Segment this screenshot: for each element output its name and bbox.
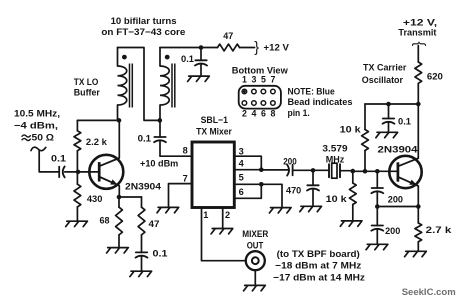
svg-text:Oscillator: Oscillator — [362, 75, 404, 85]
svg-text:0.1: 0.1 — [51, 154, 66, 164]
wire winding2 top rail to +12V — [160, 47, 218, 49]
node base Q1 — [76, 170, 81, 175]
node cap chain mid — [375, 204, 380, 209]
svg-text:−18 dBm at 7 MHz: −18 dBm at 7 MHz — [275, 261, 361, 271]
node bypass junction — [199, 45, 204, 50]
svg-text:2N3904: 2N3904 — [125, 182, 162, 192]
svg-text:10.5 MHz,: 10.5 MHz, — [14, 109, 60, 119]
node shunt cap junction — [311, 168, 316, 173]
svg-text:2N3904: 2N3904 — [378, 145, 419, 155]
svg-text:47: 47 — [149, 219, 160, 229]
svg-text:0.1: 0.1 — [138, 133, 152, 143]
transistor Q2 2N3904 — [397, 162, 400, 181]
capacitor C2 0.1 emitter bypass — [136, 251, 147, 253]
ground below 68 — [107, 248, 129, 253]
pin 4 wire — [234, 169, 261, 171]
pin 3 wire — [234, 156, 261, 170]
svg-text:620: 620 — [427, 71, 443, 81]
resistor R4 47 emitter — [141, 197, 143, 252]
pin 2 wire to ground — [222, 208, 224, 229]
wire input vertical and to coupling cap — [39, 150, 59, 172]
wire cap to ground — [141, 257, 143, 271]
node upper 10k junction — [363, 169, 368, 174]
connector J1 mixer out jack — [246, 251, 265, 270]
resistor R3 68 — [118, 197, 120, 247]
capacitor C8 200 feedback lower — [376, 207, 378, 226]
svg-text:6: 6 — [239, 187, 244, 197]
ground pin 7 — [157, 207, 179, 212]
ground below 470 — [269, 208, 291, 213]
resistor R10 2.7 k — [417, 207, 419, 252]
node 620 collector junction — [416, 102, 421, 107]
svg-text:7: 7 — [183, 174, 188, 184]
svg-text:MHz: MHz — [326, 154, 345, 164]
node emitter Q1 — [117, 195, 122, 200]
wire jack to ground — [254, 270, 256, 285]
svg-text:10 bifilar turns: 10 bifilar turns — [111, 16, 177, 26]
svg-text:on FT−37−43 core: on FT−37−43 core — [101, 27, 185, 37]
svg-text:3: 3 — [239, 147, 244, 157]
svg-text:TX LO: TX LO — [74, 77, 99, 87]
svg-text:470: 470 — [286, 185, 301, 195]
svg-text:5: 5 — [239, 173, 244, 183]
resistor R1 2.2 k — [76, 120, 78, 171]
capacitor C6 0.1 osc bypass — [388, 104, 390, 119]
ground below jack — [244, 285, 266, 290]
svg-text:+12 V: +12 V — [264, 43, 290, 53]
svg-text:5: 5 — [261, 74, 266, 84]
pin 6 wire — [234, 184, 261, 198]
svg-text:0.1: 0.1 — [398, 116, 411, 126]
ground below 2.7k — [405, 251, 427, 256]
svg-text:0.1: 0.1 — [181, 54, 194, 64]
svg-text:2: 2 — [225, 210, 230, 220]
crystal Y1 3.579 MHz — [329, 164, 340, 177]
ground below 430 — [66, 221, 88, 226]
svg-text:+10 dBm: +10 dBm — [140, 159, 178, 169]
svg-text:4: 4 — [239, 159, 245, 169]
shunt capacitor to ground — [312, 170, 314, 185]
svg-text:Buffer: Buffer — [74, 87, 100, 97]
svg-text:7: 7 — [270, 74, 275, 84]
approx squiggle before 50 ohm — [22, 135, 30, 141]
svg-text:430: 430 — [87, 194, 103, 204]
ground below rail bypass — [188, 76, 210, 81]
svg-text:}: } — [254, 40, 259, 56]
svg-text:}: } — [411, 41, 427, 46]
svg-text:8: 8 — [270, 109, 275, 119]
node emitter Q2 — [416, 204, 421, 209]
svg-text:2: 2 — [242, 109, 247, 119]
svg-text:Bead indicates: Bead indicates — [288, 97, 353, 107]
ground pin 2 — [211, 229, 233, 234]
wire emitter to 47 branch — [119, 196, 142, 198]
ground below 0.1 emitter — [130, 271, 152, 276]
svg-text:SeekIC.com: SeekIC.com — [402, 287, 456, 298]
resistor R9 620 — [417, 46, 419, 105]
capacitor C7 200 feedback upper — [376, 171, 378, 188]
svg-text:200: 200 — [283, 156, 296, 166]
pin 7 wire to ground — [169, 184, 193, 208]
pin 1 bead marker — [243, 90, 246, 93]
U1 package outline bottom view — [239, 86, 281, 109]
wire resistor to +12V terminal — [240, 47, 255, 49]
ground below osc bypass — [376, 132, 398, 137]
svg-text:1: 1 — [203, 210, 208, 220]
wire cap to mixer pin 8 — [160, 141, 192, 156]
ground below lower 10k — [340, 221, 362, 226]
wire Q2 emitter — [417, 186, 419, 207]
node lower 10k junction — [351, 169, 356, 174]
svg-text:10 k: 10 k — [326, 194, 348, 204]
transformer T1 winding 2 — [159, 48, 161, 121]
svg-text:−4 dBm,: −4 dBm, — [14, 121, 58, 131]
package pins bottom view — [242, 89, 247, 94]
svg-text:47: 47 — [223, 31, 233, 41]
wire Q1 emitter — [118, 186, 120, 197]
phase dot winding 2 — [165, 55, 170, 60]
svg-text:MIXER: MIXER — [242, 229, 268, 239]
node pins 3-4 — [259, 167, 264, 172]
input source squiggle terminal — [31, 147, 46, 151]
svg-text:200: 200 — [388, 195, 403, 205]
node cap chain base junction — [375, 169, 380, 174]
wire emitter line — [377, 206, 418, 208]
supply rail oscillator — [365, 103, 418, 105]
svg-text:10 k: 10 k — [340, 124, 362, 134]
svg-text:4: 4 — [251, 109, 256, 119]
wire Q1 collector — [118, 120, 120, 158]
capacitor C1 0.1 input coupling — [58, 167, 60, 178]
svg-text:2.2 k: 2.2 k — [86, 137, 108, 147]
resistor R8 10 k upper — [364, 104, 366, 171]
svg-text:TX Mixer: TX Mixer — [196, 126, 232, 136]
resistor R7 10 k lower — [352, 171, 354, 220]
svg-text:68: 68 — [100, 215, 110, 225]
capacitor C3 0.1 rail bypass — [200, 48, 202, 61]
resistor R6 470 termination — [261, 184, 282, 207]
svg-text:OUT: OUT — [247, 240, 264, 250]
svg-text:NOTE: Blue: NOTE: Blue — [288, 86, 335, 96]
svg-text:2.7 k: 2.7 k — [426, 225, 453, 235]
node collector/winding1 junction — [117, 118, 122, 123]
svg-text:Transmit: Transmit — [398, 27, 436, 37]
node pins 5-6 — [259, 182, 264, 187]
svg-text:3: 3 — [251, 74, 256, 84]
resistor R2 430 — [76, 172, 78, 221]
svg-text:pin 1.: pin 1. — [288, 108, 310, 118]
svg-text:8: 8 — [183, 146, 188, 156]
+12V Transmit terminal brace — [411, 41, 427, 46]
svg-text:+12 V,: +12 V, — [403, 17, 437, 27]
transformer T1 winding 1 — [117, 48, 119, 121]
capacitor C4 0.1 LO coupling — [159, 120, 161, 137]
wire crystal to Q2 base — [340, 170, 398, 173]
node winding2 bottom — [158, 118, 163, 123]
svg-text:200: 200 — [385, 226, 400, 236]
wire cap to Q1 base — [65, 171, 98, 173]
svg-text:(to TX BPF board): (to TX BPF board) — [277, 249, 360, 259]
wire rail winding1 bottom to 2.2k — [77, 119, 119, 121]
svg-text:−17 dBm at 14 MHz: −17 dBm at 14 MHz — [273, 272, 365, 282]
wire Q2 collector — [417, 104, 419, 158]
pin 1 wire to output jack — [202, 208, 246, 261]
node 0.1 bypass junction — [386, 102, 391, 107]
wire mixer out to 200 cap — [261, 169, 288, 171]
svg-text:1: 1 — [242, 74, 247, 84]
wire winding1 top over to winding2 bottom — [118, 48, 161, 121]
pin 5 wire — [234, 183, 261, 185]
svg-text:50 Ω: 50 Ω — [32, 133, 55, 143]
svg-text:SBL−1: SBL−1 — [201, 115, 228, 125]
svg-text:3.579: 3.579 — [322, 144, 347, 154]
phase dot winding 1 — [122, 55, 127, 60]
U1 SBL-1 mixer box — [192, 142, 234, 208]
capacitor C5 200 coupling — [292, 165, 294, 176]
ground below 200 chain — [366, 244, 388, 249]
wire 200 cap to crystal — [293, 169, 329, 171]
transistor Q1 2N3904 — [98, 162, 101, 181]
resistor R5 47 supply — [218, 44, 240, 51]
svg-text:6: 6 — [261, 109, 266, 119]
ground below shunt cap — [300, 206, 322, 211]
svg-text:TX Carrier: TX Carrier — [363, 63, 407, 73]
svg-text:0.1: 0.1 — [153, 249, 168, 259]
